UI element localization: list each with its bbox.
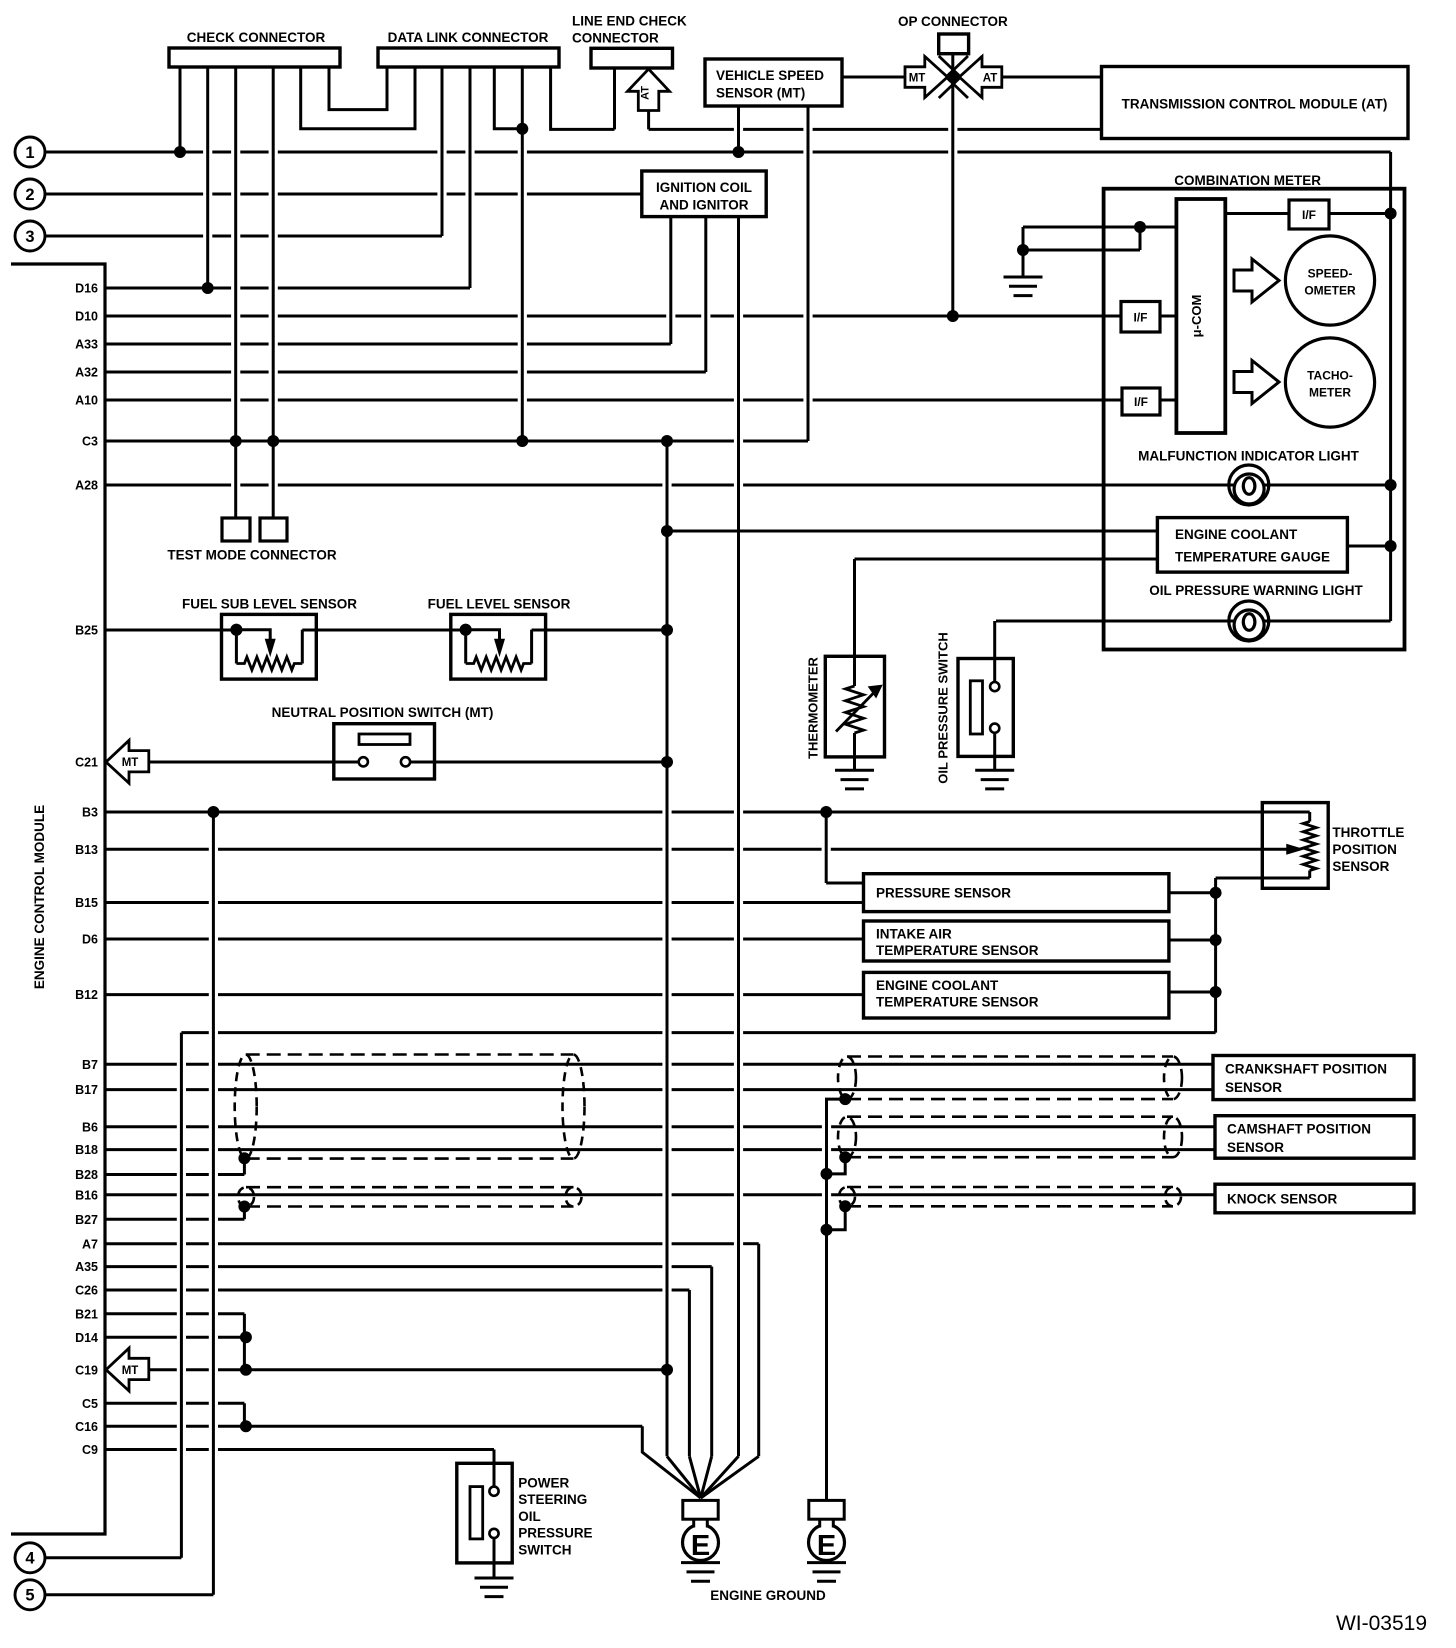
svg-text:ENGINE COOLANT: ENGINE COOLANT	[1175, 527, 1298, 542]
svg-text:MT: MT	[122, 757, 139, 769]
svg-text:TACHO-: TACHO-	[1307, 369, 1353, 383]
svg-text:B27: B27	[75, 1213, 98, 1227]
svg-text:SPEED-: SPEED-	[1308, 267, 1353, 281]
svg-text:D16: D16	[75, 282, 98, 296]
svg-text:A7: A7	[82, 1237, 98, 1251]
svg-text:OIL: OIL	[518, 1509, 541, 1524]
svg-text:1: 1	[25, 144, 34, 162]
svg-text:DATA LINK CONNECTOR: DATA LINK CONNECTOR	[388, 30, 549, 45]
svg-text:AT: AT	[983, 73, 997, 85]
svg-text:D10: D10	[75, 310, 98, 324]
svg-text:TRANSMISSION CONTROL MODULE (A: TRANSMISSION CONTROL MODULE (AT)	[1122, 97, 1388, 112]
svg-text:OMETER: OMETER	[1304, 284, 1356, 298]
svg-text:SWITCH: SWITCH	[518, 1543, 571, 1558]
svg-text:POSITION: POSITION	[1332, 842, 1397, 857]
svg-text:I/F: I/F	[1134, 395, 1148, 409]
svg-text:D14: D14	[75, 1331, 98, 1345]
svg-text:B18: B18	[75, 1143, 98, 1157]
svg-text:B21: B21	[75, 1307, 98, 1321]
svg-text:AND IGNITOR: AND IGNITOR	[659, 198, 748, 213]
svg-text:FUEL SUB LEVEL SENSOR: FUEL SUB LEVEL SENSOR	[182, 597, 357, 612]
svg-text:TEST MODE CONNECTOR: TEST MODE CONNECTOR	[167, 548, 337, 563]
svg-text:B16: B16	[75, 1188, 98, 1202]
svg-text:LINE END CHECK: LINE END CHECK	[572, 14, 687, 29]
svg-text:C9: C9	[82, 1443, 98, 1457]
svg-text:C5: C5	[82, 1397, 98, 1411]
svg-text:4: 4	[25, 1550, 35, 1568]
svg-text:SENSOR: SENSOR	[1225, 1080, 1282, 1095]
svg-text:TEMPERATURE SENSOR: TEMPERATURE SENSOR	[876, 995, 1039, 1010]
svg-text:ENGINE CONTROL MODULE: ENGINE CONTROL MODULE	[32, 805, 47, 989]
svg-text:COMBINATION METER: COMBINATION METER	[1174, 173, 1321, 188]
svg-text:CAMSHAFT POSITION: CAMSHAFT POSITION	[1227, 1122, 1371, 1137]
svg-text:CRANKSHAFT POSITION: CRANKSHAFT POSITION	[1225, 1062, 1387, 1077]
svg-text:E: E	[817, 1530, 836, 1562]
svg-text:THROTTLE: THROTTLE	[1332, 825, 1404, 840]
svg-text:THERMOMETER: THERMOMETER	[805, 656, 820, 758]
svg-text:A10: A10	[75, 394, 98, 408]
svg-text:B25: B25	[75, 624, 98, 638]
svg-text:5: 5	[25, 1587, 34, 1605]
svg-text:B3: B3	[82, 806, 98, 820]
svg-text:C26: C26	[75, 1284, 98, 1298]
svg-text:C21: C21	[75, 756, 98, 770]
svg-text:B15: B15	[75, 896, 98, 910]
svg-text:E: E	[691, 1530, 710, 1562]
svg-text:MT: MT	[122, 1365, 139, 1377]
svg-text:B6: B6	[82, 1120, 98, 1134]
svg-text:SENSOR: SENSOR	[1227, 1140, 1284, 1155]
svg-text:C19: C19	[75, 1363, 98, 1377]
svg-text:METER: METER	[1309, 386, 1351, 400]
svg-text:B28: B28	[75, 1168, 98, 1182]
svg-text:TEMPERATURE GAUGE: TEMPERATURE GAUGE	[1175, 550, 1330, 565]
svg-text:NEUTRAL POSITION SWITCH (MT): NEUTRAL POSITION SWITCH (MT)	[272, 705, 494, 720]
svg-text:B12: B12	[75, 988, 98, 1002]
svg-text:OIL PRESSURE SWITCH: OIL PRESSURE SWITCH	[936, 632, 951, 783]
svg-text:KNOCK SENSOR: KNOCK SENSOR	[1227, 1192, 1338, 1207]
svg-text:CHECK CONNECTOR: CHECK CONNECTOR	[187, 30, 326, 45]
svg-text:VEHICLE SPEED: VEHICLE SPEED	[716, 68, 824, 83]
svg-text:I/F: I/F	[1302, 208, 1316, 222]
svg-text:3: 3	[25, 228, 34, 246]
svg-text:A35: A35	[75, 1260, 98, 1274]
svg-text:TEMPERATURE SENSOR: TEMPERATURE SENSOR	[876, 943, 1039, 958]
svg-text:POWER: POWER	[518, 1475, 569, 1490]
svg-text:A32: A32	[75, 366, 98, 380]
svg-text:SENSOR: SENSOR	[1332, 859, 1389, 874]
svg-text:ENGINE GROUND: ENGINE GROUND	[710, 1588, 826, 1603]
svg-text:μ-COM: μ-COM	[1189, 295, 1204, 338]
svg-text:C3: C3	[82, 435, 98, 449]
svg-text:MT: MT	[909, 73, 926, 85]
svg-text:B13: B13	[75, 843, 98, 857]
svg-text:D6: D6	[82, 933, 98, 947]
svg-text:A33: A33	[75, 338, 98, 352]
svg-text:OIL PRESSURE WARNING LIGHT: OIL PRESSURE WARNING LIGHT	[1149, 583, 1363, 598]
svg-text:SENSOR (MT): SENSOR (MT)	[716, 86, 805, 101]
svg-text:PRESSURE SENSOR: PRESSURE SENSOR	[876, 886, 1011, 901]
svg-text:INTAKE AIR: INTAKE AIR	[876, 927, 952, 942]
svg-text:PRESSURE: PRESSURE	[518, 1526, 592, 1541]
svg-text:CONNECTOR: CONNECTOR	[572, 31, 659, 46]
svg-text:IGNITION COIL: IGNITION COIL	[656, 180, 752, 195]
svg-text:AT: AT	[640, 86, 652, 100]
svg-text:I/F: I/F	[1134, 310, 1148, 324]
svg-text:B17: B17	[75, 1083, 98, 1097]
svg-text:B7: B7	[82, 1058, 98, 1072]
svg-text:STEERING: STEERING	[518, 1492, 587, 1507]
svg-text:FUEL LEVEL SENSOR: FUEL LEVEL SENSOR	[428, 597, 571, 612]
svg-text:WI-03519: WI-03519	[1336, 1612, 1427, 1635]
svg-text:MALFUNCTION INDICATOR LIGHT: MALFUNCTION INDICATOR LIGHT	[1138, 449, 1359, 464]
svg-text:OP CONNECTOR: OP CONNECTOR	[898, 14, 1008, 29]
svg-text:C16: C16	[75, 1420, 98, 1434]
svg-text:2: 2	[25, 186, 34, 204]
svg-text:A28: A28	[75, 479, 98, 493]
svg-text:ENGINE COOLANT: ENGINE COOLANT	[876, 978, 999, 993]
